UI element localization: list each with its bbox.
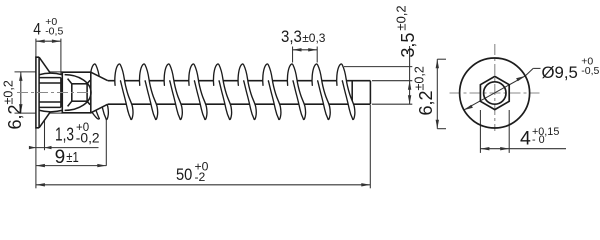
svg-text:-2: -2 [195,170,206,184]
svg-text:-0,5: -0,5 [581,65,599,77]
svg-text:1,3: 1,3 [55,123,74,144]
svg-text:4: 4 [520,128,531,150]
svg-text:- 0: - 0 [532,134,545,146]
svg-text:4: 4 [33,20,41,39]
svg-text:50: 50 [176,165,192,184]
svg-text:Ø9,5: Ø9,5 [542,63,578,82]
svg-text:-0,2: -0,2 [76,131,100,146]
svg-text:±0,3: ±0,3 [302,31,326,45]
svg-text:±1: ±1 [66,149,79,166]
svg-text:3,3: 3,3 [281,27,302,46]
svg-text:-0,5: -0,5 [45,25,63,37]
svg-text:9: 9 [55,147,66,168]
